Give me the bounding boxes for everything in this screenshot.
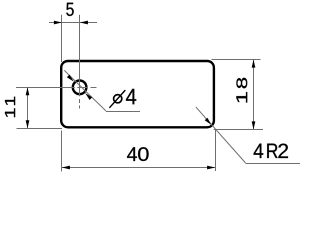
centerline vertical + 5-dim right extension — [79, 15, 81, 109]
dim 11 extension line bottom — [17, 128, 63, 130]
dim 11 text — [5, 108, 15, 117]
dim 18 arrow top — [252, 60, 256, 68]
dim 40 extension line right — [215, 130, 217, 172]
dim 40 dimension line — [62, 167, 216, 169]
diameter symbol circle — [114, 95, 122, 103]
dim 11 arrow bottom — [26, 120, 30, 128]
dim 18 extension line bottom — [214, 129, 263, 131]
diameter arrow upper-left — [67, 75, 75, 83]
dim 40 text — [127, 147, 137, 161]
corner radius leader underline — [246, 163, 300, 165]
centerline horizontal — [16, 87, 97, 89]
dim 40 extension line left — [61, 131, 63, 172]
diameter leader underline — [106, 111, 140, 113]
dim 40 arrow left — [62, 166, 70, 170]
dim 5 dimension line — [49, 22, 97, 24]
diameter symbol slash — [109, 90, 125, 108]
dim 11 dimension line — [27, 87, 29, 128]
dim 18 arrow bottom — [252, 121, 256, 129]
dim 18 dimension line — [253, 60, 255, 130]
dim 5 arrow left — [54, 21, 62, 25]
dim 5 arrow right — [80, 21, 88, 25]
hole circle d4 — [73, 81, 87, 95]
corner radius arrow — [205, 118, 213, 126]
dim 5 text — [66, 3, 73, 16]
dim 18 text — [236, 92, 247, 102]
diameter value text 4 — [126, 89, 136, 104]
diameter arrow lower-right — [84, 92, 92, 100]
dim 18 extension line top — [212, 59, 261, 61]
corner radius text 4 R2 — [254, 144, 264, 158]
dim 5 extension line left — [61, 15, 63, 62]
part outline rounded rectangle 40x18 — [61, 61, 214, 127]
diameter leader diagonal line — [64, 70, 106, 111]
corner radius leader diagonal — [196, 107, 246, 163]
dim 40 arrow right — [207, 166, 215, 170]
dim 11 arrow top — [26, 87, 30, 95]
